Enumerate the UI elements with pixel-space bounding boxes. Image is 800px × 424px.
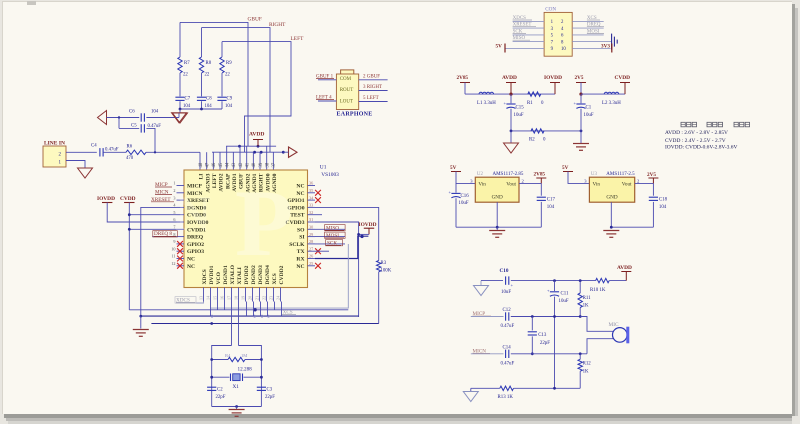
svg-text:SI: SI: [299, 235, 304, 241]
svg-text:RIGHT: RIGHT: [269, 22, 286, 28]
svg-text:IOVDD: IOVDD: [359, 222, 377, 228]
svg-text:R9: R9: [226, 61, 232, 66]
wire RX to right: [315, 236, 368, 258]
svg-text:U2: U2: [477, 172, 484, 177]
svg-text:22: 22: [183, 73, 188, 78]
capacitor C1: [580, 94, 582, 103]
svg-text:DVDD1: DVDD1: [209, 265, 215, 284]
svg-text:104: 104: [205, 104, 213, 109]
resistor R12: [579, 352, 582, 355]
svg-text:C5: C5: [131, 123, 137, 128]
svg-text:470: 470: [126, 156, 134, 161]
svg-text:AVDD2: AVDD2: [219, 173, 225, 191]
resistor R11: [579, 281, 581, 293]
svg-text:18: 18: [233, 296, 238, 300]
svg-text:NC: NC: [296, 191, 304, 197]
capacitor C6: [140, 113, 142, 121]
svg-text:C9: C9: [227, 97, 233, 102]
ground earth power section: [580, 131, 582, 143]
svg-text:19: 19: [240, 296, 245, 300]
svg-text:L1 3.3uH: L1 3.3uH: [477, 101, 496, 106]
capacitor C5: [140, 124, 142, 132]
wire TX stub: [315, 250, 329, 252]
svg-text:LEFT: LEFT: [212, 173, 218, 188]
wire MICP: [471, 316, 504, 318]
svg-text:10uF: 10uF: [459, 201, 469, 206]
svg-text:1M: 1M: [241, 353, 247, 358]
svg-text:AVDD: AVDD: [617, 265, 632, 271]
svg-text:36: 36: [309, 181, 313, 186]
svg-text:0.47uF: 0.47uF: [501, 362, 515, 367]
svg-text:C10: C10: [500, 268, 509, 274]
ground LINE IN: [78, 168, 93, 178]
svg-text:22: 22: [225, 73, 230, 78]
wire LINE IN pin1 to ground: [66, 161, 85, 169]
svg-text:C12: C12: [503, 308, 512, 313]
svg-text:29: 29: [309, 232, 313, 237]
svg-text:GPIO2: GPIO2: [187, 242, 204, 248]
svg-text:L2 3.3uH: L2 3.3uH: [602, 101, 621, 106]
net label DREQ: [152, 236, 176, 238]
svg-text:32: 32: [309, 210, 313, 215]
svg-text:2V85: 2V85: [534, 172, 546, 178]
ground triangle power section: [510, 131, 512, 143]
svg-text:R11: R11: [583, 296, 592, 301]
svg-text:3 RIGHT: 3 RIGHT: [363, 85, 382, 90]
svg-text:10uF: 10uF: [584, 113, 594, 118]
CON pin10 wire: [572, 47, 610, 49]
wire U3 vout: [635, 182, 654, 184]
resistor R13: [500, 386, 514, 390]
svg-text:RX: RX: [296, 257, 304, 263]
resistor R2: [531, 129, 544, 133]
svg-text:X1: X1: [233, 384, 240, 390]
wire TEST stub: [315, 214, 322, 216]
svg-text:C4: C4: [91, 144, 97, 149]
svg-text:22pF: 22pF: [265, 395, 275, 400]
resistor R4: [212, 359, 228, 361]
svg-text:GND: GND: [606, 195, 617, 201]
no-connect X marks left pins: [177, 241, 183, 247]
svg-text:VS1003: VS1003: [321, 172, 339, 178]
CON right wires: [572, 20, 604, 22]
svg-text:SO: SO: [297, 227, 305, 233]
svg-text:20: 20: [247, 296, 252, 300]
ground left of C6: [98, 111, 107, 125]
svg-text:0.47uF: 0.47uF: [501, 324, 515, 329]
svg-text:10uF: 10uF: [559, 299, 569, 304]
resistor R8: [201, 28, 203, 57]
svg-text:48: 48: [199, 162, 204, 167]
svg-text:C8: C8: [206, 97, 212, 102]
svg-text:EARPHONE: EARPHONE: [337, 112, 373, 118]
wire C10 to R10: [511, 280, 596, 282]
bus A below chip: [129, 309, 348, 311]
svg-text:C2: C2: [217, 388, 223, 393]
svg-text:2 GBUF: 2 GBUF: [363, 74, 380, 79]
net label SCK: [315, 243, 345, 245]
regulator U2 AMS1117-2.85: [475, 177, 519, 202]
wire C4 to R6: [103, 151, 126, 153]
svg-text:IOVDD: IOVDD: [544, 75, 562, 81]
wire XTALI down: [238, 302, 240, 346]
svg-text:104: 104: [183, 104, 191, 109]
chip U1 body VS1003: [184, 170, 308, 288]
chip U1 left pin stubs: [177, 185, 185, 187]
wire DVDD2 DGND pins to bus: [246, 302, 248, 317]
svg-text:R6: R6: [127, 144, 133, 149]
svg-text:13: 13: [198, 296, 203, 300]
wire MICN: [471, 353, 504, 355]
svg-text:104: 104: [151, 110, 159, 115]
ground for R7-R9 string: [179, 109, 181, 113]
svg-text:40: 40: [252, 162, 257, 167]
wire LEFT to earphone pin4: [318, 100, 336, 102]
svg-text:U3: U3: [591, 172, 598, 177]
svg-text:RCAP: RCAP: [225, 173, 231, 189]
svg-text:R10 1K: R10 1K: [590, 288, 606, 293]
svg-text:17: 17: [226, 296, 231, 300]
capacitor C16: [455, 183, 457, 192]
svg-text:5V: 5V: [450, 165, 457, 171]
capacitor C3: [257, 386, 266, 388]
svg-text:NC: NC: [187, 264, 195, 270]
resistor R9: [221, 42, 223, 57]
svg-text:10uF: 10uF: [501, 290, 511, 295]
svg-text:AVDD : 2.6V - 2.8V - 2.85V: AVDD : 2.6V - 2.8V - 2.85V: [665, 130, 728, 136]
capacitor C9: [221, 94, 223, 96]
svg-text:IOVDD: CVDD-0.6V-2.8V-3.6V: IOVDD: CVDD-0.6V-2.8V-3.6V: [665, 144, 737, 150]
svg-text:22pF: 22pF: [216, 395, 226, 400]
U2 ground rail: [456, 226, 541, 228]
svg-text:C14: C14: [503, 346, 512, 351]
svg-text:22: 22: [205, 73, 210, 78]
svg-text:GND: GND: [492, 195, 503, 201]
connector CON body: [544, 12, 572, 56]
net label MISO: [315, 228, 345, 230]
svg-text:NC: NC: [296, 184, 304, 190]
regulator U3 AMS1117-2.5: [589, 177, 634, 202]
svg-text:C11: C11: [561, 292, 570, 297]
svg-text:104: 104: [659, 205, 667, 210]
svg-text:22: 22: [261, 296, 266, 300]
inductor L2: [604, 92, 619, 94]
U3 ground rail: [611, 226, 653, 228]
svg-text:5 LEFT: 5 LEFT: [363, 96, 379, 101]
svg-text:Vin: Vin: [593, 181, 601, 187]
bus C below chip: [151, 323, 378, 325]
wire CVDD2 pin: [281, 302, 283, 317]
svg-text:35: 35: [309, 188, 313, 193]
svg-text:33: 33: [309, 203, 313, 208]
capacitor C2: [207, 386, 216, 388]
resistor R10: [596, 278, 610, 282]
crystal loop wires: [212, 346, 232, 407]
svg-text:CVDD: CVDD: [615, 75, 631, 81]
svg-text:R8: R8: [206, 61, 212, 66]
wire junction down to C5: [118, 118, 120, 129]
svg-text:C16: C16: [461, 194, 470, 199]
svg-text:22pF: 22pF: [540, 341, 550, 346]
wire CVDD to pins 5 and 7: [128, 203, 130, 310]
svg-text:44: 44: [225, 162, 230, 167]
CON left wires: [513, 20, 545, 22]
wire DVDD1 pin to bus: [210, 302, 212, 317]
svg-text:1K: 1K: [583, 304, 589, 309]
svg-text:16: 16: [219, 296, 224, 300]
wire grey XCS route: [211, 244, 348, 308]
ground right of C6: [178, 113, 180, 118]
svg-text:GBUF: GBUF: [248, 17, 262, 23]
page shadow right: [792, 4, 795, 416]
inductor L1: [479, 92, 494, 94]
svg-text:C13: C13: [538, 333, 547, 338]
svg-text:Vout: Vout: [506, 181, 516, 187]
svg-text:U1: U1: [320, 164, 327, 170]
svg-text:45: 45: [219, 162, 224, 167]
ground at CON pin8: [611, 34, 613, 50]
AVDD bus above chip: [226, 145, 276, 147]
wire pin4 DGND0 down left: [141, 207, 177, 316]
svg-text:R2: R2: [529, 138, 535, 143]
capacitor C18: [652, 183, 654, 195]
svg-text:Vout: Vout: [622, 181, 632, 187]
net LEFT wire: [222, 42, 291, 153]
ground mic bottom: [470, 388, 472, 391]
capacitor C12: [505, 312, 507, 320]
svg-text:10uF: 10uF: [514, 113, 524, 118]
svg-text:MIC: MIC: [609, 322, 619, 328]
wire cap bottoms: [180, 108, 222, 110]
svg-text:P: P: [235, 170, 293, 276]
earphone pin2 GBUF: [359, 79, 388, 81]
svg-text:R4: R4: [225, 353, 231, 358]
svg-text:NC: NC: [296, 264, 304, 270]
bus B below chip: [141, 315, 359, 317]
capacitor C17: [540, 183, 542, 195]
svg-text:47: 47: [205, 162, 210, 167]
svg-text:23: 23: [268, 296, 273, 300]
svg-text:43: 43: [232, 162, 237, 167]
svg-text:25: 25: [309, 261, 313, 266]
svg-text:R12: R12: [583, 362, 592, 367]
resistor R3: [377, 261, 381, 272]
svg-text:R7: R7: [184, 61, 190, 66]
svg-text:LI: LI: [199, 174, 205, 180]
svg-text:46: 46: [212, 162, 217, 167]
svg-text:AMS1117-2.5: AMS1117-2.5: [606, 172, 635, 177]
chip U1 top pin stubs: [199, 152, 201, 170]
net GBUF wire: [180, 22, 248, 146]
svg-text:ROUT: ROUT: [340, 88, 354, 93]
svg-text:C18: C18: [659, 198, 668, 203]
svg-text:LEFT: LEFT: [291, 36, 305, 42]
svg-text:COM: COM: [340, 77, 352, 82]
svg-text:104: 104: [547, 205, 555, 210]
svg-text:41: 41: [245, 162, 250, 167]
capacitor C10: [505, 276, 507, 284]
svg-text:XDCS: XDCS: [202, 269, 208, 284]
connector EARPHONE body: [341, 70, 354, 75]
wire to C6: [107, 117, 140, 119]
svg-text:IOVDD: IOVDD: [97, 196, 115, 202]
svg-text:38: 38: [266, 162, 271, 167]
wire CVDD3 to IOVDD flag: [315, 222, 359, 317]
earphone pin5 LEFT: [359, 101, 388, 103]
svg-text:31: 31: [309, 217, 313, 222]
net label XDCS below chip: [176, 302, 204, 304]
svg-text:21: 21: [254, 296, 259, 300]
svg-text:30: 30: [309, 225, 313, 230]
svg-text:1K: 1K: [583, 370, 589, 375]
svg-text:2V5: 2V5: [647, 172, 656, 178]
capacitor C15: [510, 94, 512, 103]
ground U3: [603, 230, 619, 232]
svg-text:0.47uF: 0.47uF: [105, 147, 119, 152]
svg-text:2V5: 2V5: [575, 75, 584, 81]
svg-text:11: 11: [171, 254, 175, 259]
svg-text:VCO: VCO: [216, 271, 222, 284]
rail AVDD: [465, 93, 555, 95]
wire XTALO down: [231, 302, 233, 346]
wire C5 to line: [146, 128, 155, 152]
svg-text:10: 10: [171, 246, 175, 251]
svg-text:3V3: 3V3: [601, 43, 610, 49]
page shadow bottom: [4, 414, 792, 418]
ground mic top-left: [480, 281, 482, 286]
svg-text:N: N: [175, 185, 211, 241]
svg-text:DGND1: DGND1: [223, 265, 229, 284]
svg-text:NC: NC: [187, 257, 195, 263]
resistor R6: [126, 150, 146, 154]
svg-text:5V: 5V: [496, 43, 503, 49]
earphone pin3 RIGHT: [359, 90, 388, 92]
wire VCO DGND1 pins to bus: [217, 302, 219, 310]
wire C6 to ground: [146, 117, 179, 119]
svg-text:42: 42: [239, 162, 244, 167]
svg-text:R3: R3: [381, 261, 387, 266]
rail CVDD: [581, 93, 625, 95]
voltage spec text: [681, 122, 685, 127]
svg-text:C17: C17: [547, 198, 556, 203]
ground below chip left: [140, 316, 142, 328]
crystal ground: [235, 405, 238, 408]
svg-text:27: 27: [309, 246, 313, 251]
svg-text:12.288: 12.288: [238, 367, 253, 373]
svg-text:AVDD: AVDD: [502, 75, 517, 81]
capacitor C7: [179, 94, 181, 96]
svg-text:CVDD: CVDD: [120, 196, 136, 202]
svg-text:37: 37: [272, 162, 277, 167]
capacitor C8: [201, 94, 203, 96]
svg-text:GPIO3: GPIO3: [187, 249, 204, 255]
svg-text:C1: C1: [586, 106, 592, 111]
svg-text:C6: C6: [129, 110, 135, 115]
svg-text:2V85: 2V85: [457, 75, 469, 81]
mic interconnect wires: [580, 317, 613, 332]
svg-text:TX: TX: [297, 249, 305, 255]
svg-text:CON: CON: [545, 7, 556, 13]
svg-text:LOUT: LOUT: [340, 99, 353, 104]
svg-text:C7: C7: [185, 97, 191, 102]
net RIGHT wire: [202, 28, 271, 153]
svg-text:104: 104: [225, 104, 233, 109]
svg-text:AMS1117-2.85: AMS1117-2.85: [493, 172, 524, 177]
svg-text:15: 15: [212, 296, 217, 300]
resistor R1: [528, 92, 541, 96]
chip U1 bottom pin stubs: [203, 288, 205, 302]
svg-text:R1: R1: [527, 101, 533, 106]
svg-text:AVDD: AVDD: [249, 132, 264, 138]
svg-text:Vin: Vin: [478, 181, 486, 187]
no-connect X marks right pins: [315, 190, 321, 196]
svg-text:12: 12: [171, 261, 175, 266]
resistor R7: [179, 22, 181, 57]
svg-text:26: 26: [309, 254, 313, 259]
net label MOSI: [315, 236, 345, 238]
svg-text:28: 28: [309, 239, 313, 244]
off-page arrow right: [289, 147, 298, 157]
wire XCS pin: [274, 302, 276, 310]
svg-text:CVDD : 2.4V - 2.5V - 2.7V: CVDD : 2.4V - 2.5V - 2.7V: [665, 138, 726, 144]
capacitor C13: [531, 317, 533, 331]
ground U2: [496, 227, 498, 230]
svg-text:C3: C3: [267, 388, 273, 393]
svg-text:10: 10: [561, 47, 566, 52]
svg-text:C15: C15: [516, 106, 525, 111]
wire LINE IN pin2: [66, 151, 97, 153]
mic top rail: [481, 280, 503, 282]
svg-text:39: 39: [259, 162, 264, 167]
capacitor C14: [505, 350, 507, 358]
svg-text:5V: 5V: [562, 165, 569, 171]
wire GPIO0 to R3: [315, 207, 379, 260]
wire R10 to AVDD: [609, 280, 626, 282]
capacitor C11: [554, 281, 556, 291]
wire U2 vout: [519, 182, 541, 184]
wire GBUF to earphone pin1: [318, 79, 336, 81]
CON pin8 ground wire: [572, 41, 611, 43]
svg-text:R13 1K: R13 1K: [498, 395, 514, 400]
svg-text:100K: 100K: [381, 269, 392, 274]
wire R6 to chip pin 48: [146, 151, 200, 153]
chip U1 right pin stubs: [308, 185, 316, 187]
capacitor C4: [99, 148, 101, 156]
AGND bus above chip: [212, 151, 283, 153]
bottom rail left: [511, 130, 581, 132]
mic bottom rail: [471, 387, 500, 389]
